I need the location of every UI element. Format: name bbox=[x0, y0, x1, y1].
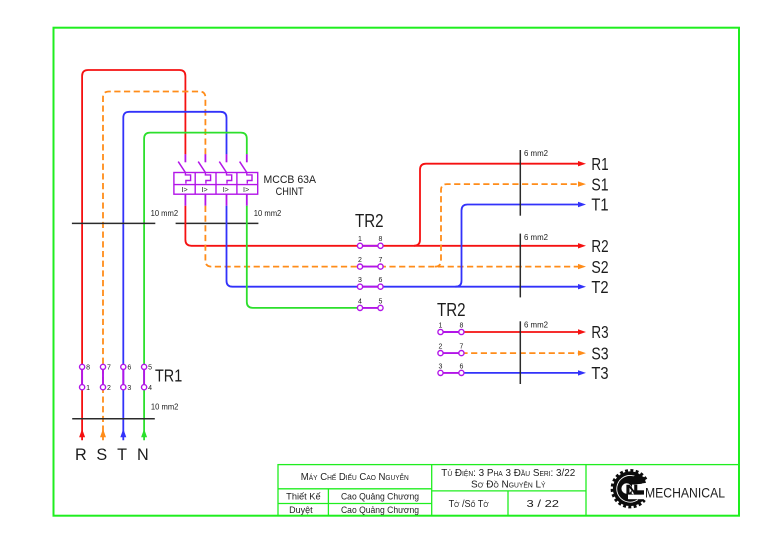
svg-text:MCCB 63A: MCCB 63A bbox=[264, 174, 317, 186]
svg-text:7: 7 bbox=[459, 344, 463, 351]
svg-text:6 mm2: 6 mm2 bbox=[524, 149, 548, 158]
svg-text:T: T bbox=[117, 446, 127, 464]
svg-text:3 / 22: 3 / 22 bbox=[527, 499, 560, 510]
svg-text:6 mm2: 6 mm2 bbox=[524, 320, 548, 329]
svg-text:3: 3 bbox=[127, 385, 131, 392]
terminal TR1 pin circle 1 bbox=[80, 385, 85, 390]
svg-text:S: S bbox=[96, 446, 107, 464]
terminal TR2 pin circle 7 bbox=[378, 264, 383, 269]
svg-text:TR2: TR2 bbox=[437, 300, 466, 320]
terminal TR2b pair 1 link bbox=[441, 331, 462, 333]
svg-text:TR1: TR1 bbox=[155, 365, 182, 385]
terminal TR2 pair 2 link bbox=[360, 266, 381, 268]
terminal TR2 pair 3 link bbox=[360, 286, 381, 288]
svg-text:Thiết Kế: Thiết Kế bbox=[286, 492, 320, 502]
terminal TR2b pin circle 6 bbox=[459, 370, 464, 375]
svg-text:Tờ /Số Tờ: Tờ /Số Tờ bbox=[449, 499, 489, 510]
wire R1 branch bbox=[414, 164, 579, 246]
terminal TR2 pin circle 8 bbox=[378, 243, 383, 248]
svg-text:5: 5 bbox=[148, 365, 152, 372]
svg-text:I>: I> bbox=[181, 185, 187, 194]
wire T1 branch bbox=[456, 205, 580, 287]
arrow R1 bbox=[578, 161, 586, 166]
terminal TR2 pin circle 1 bbox=[357, 243, 362, 248]
terminal TR1 pin circle 6 bbox=[121, 364, 126, 369]
terminal TR2 pin circle 6 bbox=[378, 284, 383, 289]
svg-text:Cao Quảng Chương: Cao Quảng Chương bbox=[341, 492, 419, 502]
svg-text:R: R bbox=[75, 446, 87, 464]
svg-text:R1: R1 bbox=[591, 154, 608, 174]
svg-text:7: 7 bbox=[107, 365, 111, 372]
wire N spare bbox=[247, 206, 358, 308]
arrow R3 bbox=[578, 329, 586, 334]
cable marker 6 mm2 tier 3 bbox=[519, 321, 521, 384]
svg-text:Cao Quảng Chương: Cao Quảng Chương bbox=[341, 505, 419, 515]
terminal TR2 pair 4 link bbox=[360, 307, 381, 309]
wire T feed bbox=[123, 112, 226, 440]
arrow R2 bbox=[578, 243, 586, 248]
arrow T1 bbox=[578, 202, 586, 207]
terminal TR1 pin circle 4 bbox=[142, 385, 147, 390]
svg-text:6: 6 bbox=[379, 277, 383, 284]
terminal TR1 pair 1 link bbox=[81, 367, 83, 387]
terminal TR1 pair 2 link bbox=[102, 367, 104, 387]
terminal TR2 pin circle 2 bbox=[357, 264, 362, 269]
svg-text:6: 6 bbox=[127, 365, 131, 372]
wire T3 output bbox=[461, 372, 579, 374]
wire S3 output bbox=[461, 352, 579, 354]
svg-text:R2: R2 bbox=[591, 236, 608, 256]
wire S phase bus bbox=[205, 206, 579, 267]
breaker MCCB 63A CHINT bbox=[174, 154, 258, 206]
svg-text:10 mm2: 10 mm2 bbox=[254, 209, 282, 218]
arrow source R bbox=[79, 429, 85, 437]
title block grid bbox=[278, 465, 739, 516]
svg-text:6 mm2: 6 mm2 bbox=[524, 233, 548, 242]
terminal TR2b pin circle 3 bbox=[438, 370, 443, 375]
wire N feed bbox=[144, 133, 247, 441]
wire R phase bus bbox=[185, 206, 579, 246]
terminal TR1 pin circle 8 bbox=[80, 364, 85, 369]
terminal TR2 pin circle 5 bbox=[378, 305, 383, 310]
cable marker 6 mm2 tier 1 bbox=[519, 150, 521, 216]
svg-text:3: 3 bbox=[439, 363, 443, 370]
terminal TR1 pin circle 5 bbox=[142, 364, 147, 369]
cable marker 10 mm2 (feed group A) bbox=[72, 222, 155, 224]
svg-text:I>: I> bbox=[223, 185, 229, 194]
svg-text:S2: S2 bbox=[591, 257, 608, 277]
svg-text:7: 7 bbox=[379, 257, 383, 264]
terminal TR1 pin circle 2 bbox=[100, 385, 105, 390]
cable marker 6 mm2 tier 2 bbox=[519, 234, 521, 298]
terminal TR1 pin circle 7 bbox=[100, 364, 105, 369]
terminal TR2b pair 2 link bbox=[441, 352, 462, 354]
svg-text:S1: S1 bbox=[591, 174, 608, 194]
svg-text:1: 1 bbox=[86, 385, 90, 392]
terminal TR1 pair 4 link bbox=[143, 367, 145, 387]
svg-text:10 mm2: 10 mm2 bbox=[151, 209, 179, 218]
arrow T3 bbox=[578, 370, 586, 375]
arrow source S bbox=[100, 429, 106, 437]
wire R3 output bbox=[461, 331, 579, 333]
terminal TR1 pair 3 link bbox=[122, 367, 124, 387]
svg-text:I>: I> bbox=[243, 185, 249, 194]
terminal TR2 pin circle 4 bbox=[357, 305, 362, 310]
terminal TR2b pin circle 1 bbox=[438, 329, 443, 334]
svg-text:S3: S3 bbox=[591, 343, 608, 363]
terminal TR2b pin circle 7 bbox=[459, 351, 464, 356]
arrow source T bbox=[120, 429, 126, 437]
svg-text:8: 8 bbox=[379, 236, 383, 243]
terminal TR2b pin circle 8 bbox=[459, 329, 464, 334]
svg-text:3: 3 bbox=[358, 277, 362, 284]
svg-text:Sơ Đồ Nguyên Lý: Sơ Đồ Nguyên Lý bbox=[471, 480, 546, 491]
svg-text:2: 2 bbox=[107, 385, 111, 392]
terminal TR2 pin circle 3 bbox=[357, 284, 362, 289]
arrow S1 bbox=[578, 181, 586, 186]
svg-text:T2: T2 bbox=[591, 277, 608, 297]
svg-text:1: 1 bbox=[358, 236, 362, 243]
terminal TR1 pin circle 3 bbox=[121, 385, 126, 390]
svg-text:8: 8 bbox=[459, 322, 463, 329]
logo gear G bbox=[612, 471, 647, 507]
svg-text:8: 8 bbox=[86, 365, 90, 372]
svg-text:T1: T1 bbox=[591, 195, 608, 215]
svg-text:4: 4 bbox=[148, 385, 152, 392]
wire S feed bbox=[103, 92, 205, 441]
cable marker 10 mm2 (feed group B) bbox=[176, 222, 259, 224]
arrow source N bbox=[141, 429, 147, 437]
wire R feed bbox=[82, 70, 185, 440]
svg-text:CHINT: CHINT bbox=[276, 186, 304, 198]
terminal TR2b pair 3 link bbox=[441, 372, 462, 374]
svg-text:Máy Chế Diếu Cao Nguyễn: Máy Chế Diếu Cao Nguyễn bbox=[301, 472, 409, 483]
arrow S3 bbox=[578, 350, 586, 355]
terminal TR2 pair 1 link bbox=[360, 245, 381, 247]
wire T phase bus bbox=[227, 206, 580, 287]
terminal TR2b pin circle 2 bbox=[438, 351, 443, 356]
arrow T2 bbox=[578, 284, 586, 289]
svg-text:T3: T3 bbox=[591, 363, 608, 383]
wire S1 branch bbox=[435, 184, 579, 267]
svg-text:5: 5 bbox=[379, 298, 383, 305]
svg-text:TR2: TR2 bbox=[355, 211, 384, 231]
svg-text:Tủ Điện: 3 Pha 3 Đầu Seri: 3/2: Tủ Điện: 3 Pha 3 Đầu Seri: 3/22 bbox=[441, 468, 575, 479]
svg-text:Duyệt: Duyệt bbox=[289, 505, 313, 515]
svg-text:10 mm2: 10 mm2 bbox=[151, 403, 179, 412]
arrow S2 bbox=[578, 264, 586, 269]
svg-text:N: N bbox=[137, 446, 149, 464]
cable marker 10 mm2 (bottom) bbox=[72, 418, 155, 420]
svg-text:R3: R3 bbox=[591, 322, 608, 342]
svg-text:6: 6 bbox=[459, 363, 463, 370]
svg-text:1: 1 bbox=[439, 322, 443, 329]
svg-text:2: 2 bbox=[358, 257, 362, 264]
svg-text:I>: I> bbox=[201, 185, 207, 194]
svg-text:4: 4 bbox=[358, 298, 362, 305]
svg-text:2: 2 bbox=[439, 344, 443, 351]
svg-text:MECHANICAL: MECHANICAL bbox=[645, 485, 725, 500]
